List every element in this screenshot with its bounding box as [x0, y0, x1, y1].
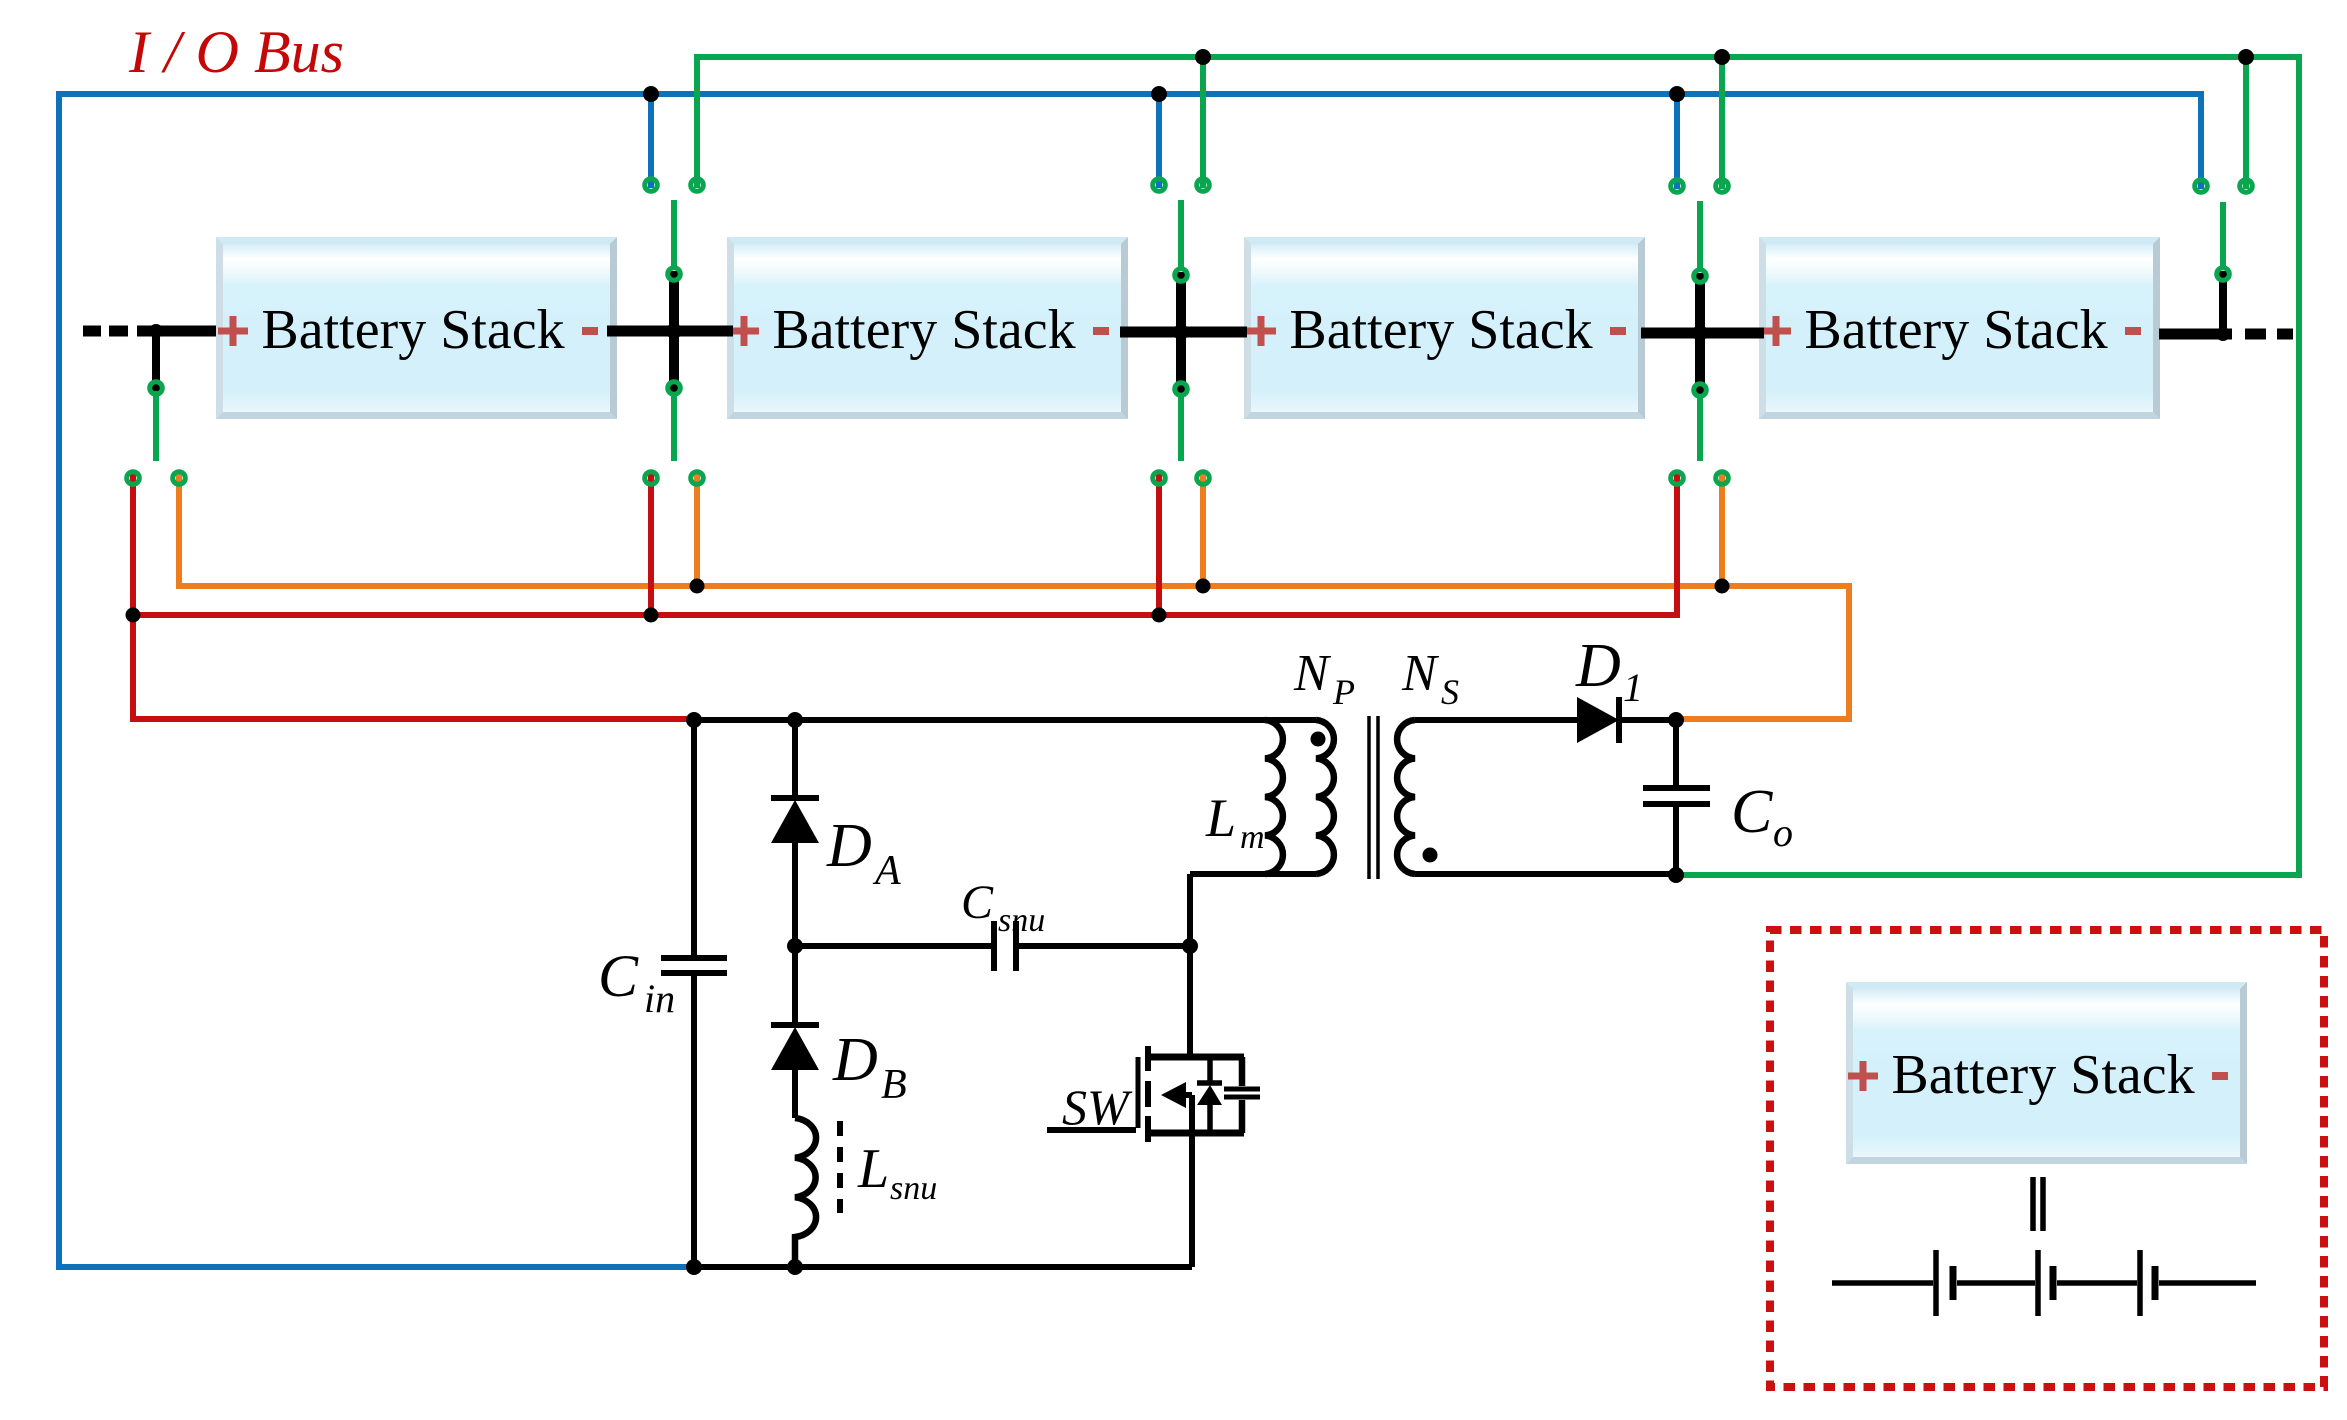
wire: green drop 3: [2243, 57, 2249, 189]
cell 2: [2035, 1250, 2041, 1316]
cross B vertical: [669, 271, 679, 392]
svg-text:C: C: [598, 943, 639, 1009]
svg-text:m: m: [1240, 819, 1265, 856]
secondary NS winding: [1397, 720, 1415, 874]
battery stack 1: [216, 237, 617, 419]
wire: converter top rail: [694, 717, 1316, 723]
wire: red bus: [133, 474, 1677, 615]
wire: secondary top: [1415, 717, 1577, 723]
terminal rings cross bottoms: [150, 382, 163, 395]
svg-text:A: A: [872, 848, 901, 894]
node: converter top nodes: [686, 712, 702, 728]
node: chain T joints: [149, 324, 163, 338]
battery stack 4: [1759, 237, 2160, 419]
node: green bus junctions: [1195, 49, 1211, 65]
wire: orange drop B: [694, 474, 700, 586]
svg-text:N: N: [1401, 645, 1440, 702]
drain connection: [1148, 1054, 1244, 1061]
primary NP winding: [1316, 720, 1334, 874]
cross C horizontal: [1120, 327, 1247, 338]
inductor Lsnu: [795, 1118, 816, 1267]
wire: green stub below cross B: [671, 389, 677, 461]
wire: red drop C: [1156, 474, 1162, 615]
svg-text:snu: snu: [998, 902, 1045, 939]
wire: left dashed chain: [83, 326, 128, 337]
node: snubber nodes: [787, 938, 803, 954]
wire: blue I/O bus loop: [59, 94, 2201, 1267]
node: cross centers: [666, 323, 682, 339]
node: output nodes: [1668, 712, 1684, 728]
capacitor Co: [1673, 720, 1679, 875]
wire: green stub above T E: [2220, 202, 2226, 270]
wire: green stub below cross C: [1178, 390, 1184, 461]
wire: orange drop D: [1719, 474, 1725, 586]
node: red bus junctions: [126, 608, 141, 623]
wire: green drop 2: [1719, 57, 1725, 189]
svg-text:I / O Bus: I / O Bus: [128, 19, 344, 85]
wire: red drop B: [648, 474, 654, 615]
phase dot secondary: [1423, 848, 1438, 863]
wire: right dashed chain: [2245, 329, 2293, 340]
cross C vertical: [1176, 272, 1186, 393]
svg-text:D: D: [826, 812, 872, 880]
svg-text:C: C: [1731, 778, 1773, 846]
gate lead: [1047, 1127, 1136, 1133]
legend dashed border: [1770, 930, 2324, 1387]
node: blue bus junctions: [643, 86, 659, 102]
cross D horizontal: [1641, 328, 1764, 339]
wire: blue drop 1: [648, 94, 654, 188]
diode D1: [1577, 697, 1619, 743]
svg-text:D: D: [1575, 632, 1621, 700]
svg-text:C: C: [961, 876, 994, 929]
wire: left solid chain into box1: [137, 326, 216, 337]
svg-text:D: D: [832, 1026, 878, 1094]
capacitor Csnu: [795, 943, 1190, 949]
cell 3: [2137, 1250, 2143, 1316]
node: orange bus junctions: [690, 579, 705, 594]
diode DA: [792, 720, 798, 946]
terminal rings bottom row: [127, 472, 140, 485]
source vertical: [1189, 1095, 1195, 1267]
substrate arrow: [1184, 1092, 1192, 1098]
source connection: [1148, 1130, 1244, 1137]
svg-text:L: L: [857, 1138, 889, 1200]
wire: green stub above cross B: [671, 200, 677, 270]
wire: converter bottom rail: [694, 1264, 1192, 1270]
capacitor Cin: [691, 720, 697, 1267]
wire: T-drop at A: [152, 331, 160, 391]
wire: blue drop 2: [1156, 94, 1162, 188]
wire: green drop 1: [1200, 57, 1206, 188]
svg-text:SW: SW: [1062, 1079, 1133, 1135]
diode DB: [792, 946, 798, 1118]
wire: T-rise at E: [2219, 271, 2227, 334]
terminal rings cross tops: [668, 268, 681, 281]
svg-text:N: N: [1293, 645, 1332, 702]
wire: primary bottom: [1190, 871, 1316, 877]
node: bottom nodes: [686, 1259, 702, 1275]
terminal rings row 1: [645, 179, 658, 192]
cell 1: [1933, 1250, 1939, 1316]
svg-text:L: L: [1205, 788, 1236, 848]
svg-text:o: o: [1773, 810, 1793, 855]
wire: blue drop 3: [1674, 94, 1680, 189]
svg-text:in: in: [644, 976, 675, 1021]
cross D vertical: [1695, 273, 1705, 394]
battery stack 5: [1846, 982, 2247, 1164]
core: [1369, 716, 1378, 879]
battery stack 2: [727, 237, 1128, 419]
wire: secondary bottom: [1415, 871, 1676, 877]
body diode / cap loop right side: [1239, 1057, 1246, 1133]
legend battery string: [1832, 1280, 2256, 1286]
phase dot primary: [1311, 732, 1326, 747]
wire: green stub above cross D: [1697, 201, 1703, 272]
svg-text:P: P: [1332, 672, 1355, 712]
wire: green stub below cross D: [1697, 391, 1703, 461]
svg-text:1: 1: [1623, 665, 1643, 710]
wire: green stub above cross C: [1178, 200, 1184, 271]
channel segments: [1145, 1046, 1151, 1142]
wire: orange bus: [179, 474, 1849, 719]
wire: orange drop C: [1200, 474, 1206, 586]
battery stack 3: [1244, 237, 1645, 419]
wire: green stub below A: [153, 388, 159, 461]
wire: red feeder from A to converter: [133, 474, 694, 719]
wire: right solid chain from box4: [2159, 329, 2232, 340]
svg-text:B: B: [881, 1062, 907, 1108]
svg-text:snu: snu: [890, 1170, 937, 1207]
legend continuation marks: [2033, 1177, 2043, 1231]
cross B horizontal: [607, 326, 733, 337]
primary Lm winding: [1265, 720, 1283, 874]
wire: green I/O bus: [697, 57, 2299, 875]
svg-text:S: S: [1441, 672, 1459, 712]
gate bar: [1136, 1057, 1141, 1128]
drain vertical: [1187, 874, 1193, 1060]
